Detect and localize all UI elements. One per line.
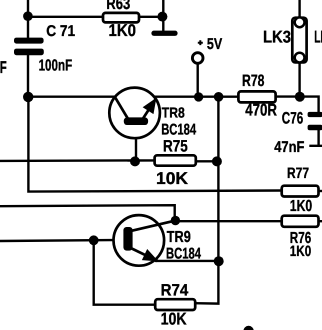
capacitor C71 plates (14, 38, 44, 56)
svg-text:47nF: 47nF (274, 139, 304, 156)
svg-text:5V: 5V (207, 36, 223, 53)
svg-text:C76: C76 (282, 109, 303, 127)
resistor R63 (103, 13, 139, 23)
wire: LK3 top lead from top edge (298, 0, 300, 18)
+5V terminal circle (192, 53, 203, 64)
capacitor C76 plates (308, 112, 322, 130)
wire: vertical from top edge through ground node to ground symbol (162, 0, 164, 31)
svg-text:TR9: TR9 (167, 229, 191, 246)
link LK3 top circle (295, 17, 305, 27)
svg-text:10K: 10K (161, 309, 188, 328)
wire: R75 right to vertical bus node (196, 160, 219, 162)
wire: TR9 emitter to bus node (156, 260, 219, 262)
svg-text:TR8: TR8 (162, 106, 185, 122)
wire: TR9 collector node to R76 (175, 220, 281, 222)
ground symbol (151, 31, 177, 36)
svg-text:470R: 470R (245, 101, 277, 120)
svg-text:LK3: LK3 (263, 27, 291, 46)
wire: horizontal from left edge, corner down to TR9 collector node (0, 205, 175, 220)
wire: vertical below rail node down, corner, horizontal to R77 (28, 97, 281, 192)
wire: +5V terminal lead down to rail (196, 64, 198, 97)
resistor R75 (155, 155, 196, 165)
wire: R63 right to ground node (139, 16, 162, 18)
transistor TR9 body (114, 215, 176, 266)
transistor TR8 body (109, 88, 160, 139)
svg-text:R63: R63 (106, 0, 130, 13)
svg-text:BC184: BC184 (161, 121, 196, 138)
resistor R77 (282, 186, 319, 197)
junction node bus / rail (214, 92, 224, 102)
wire: R77 stub to right edge (318, 190, 322, 192)
svg-text:1K0: 1K0 (290, 198, 312, 215)
wire: collector rail y=96.7 from node to R78 (27, 95, 239, 97)
svg-text:100nF: 100nF (39, 57, 73, 74)
resistor R78 (238, 91, 275, 102)
junction node at C71 top (23, 11, 33, 21)
wire: LK3 bottom lead to rail node (298, 62, 300, 96)
resistor R74 (155, 299, 195, 310)
junction node TR9 base (89, 235, 99, 245)
svg-text:BC184: BC184 (166, 246, 201, 263)
svg-text:LK: LK (314, 28, 322, 47)
svg-text:R77: R77 (287, 165, 309, 182)
svg-text:R74: R74 (161, 281, 189, 299)
wire: C71 bottom lead down to collector-rail node (27, 55, 29, 97)
junction node LK3 / rail (295, 92, 305, 102)
link LK3 bottom circle (295, 53, 305, 63)
svg-text:F: F (0, 58, 7, 77)
wire: TR8 base lead down to node (135, 125, 137, 162)
wire: vertical from top edge through node to C71 top (27, 0, 29, 39)
wire: TR9 base node down, corner, to R74 left (94, 240, 156, 304)
wire: vertical bus from rail node down, corner, to R74 right (195, 97, 218, 304)
junction node TR8 base / R75 (130, 156, 140, 166)
svg-text:1K0: 1K0 (290, 243, 311, 260)
junction node R75 / bus (212, 156, 222, 166)
wire: node to R63 left (28, 16, 104, 18)
wire: C76 bottom lead and stub to right edge (311, 130, 322, 146)
wire: R76 stub to right edge (318, 220, 322, 222)
resistor R76 (282, 216, 319, 227)
junction node at bottom edge (243, 326, 253, 330)
wire: R78 right to LK3 node and corner down to C76 (276, 97, 319, 113)
junction node C71 / rail (23, 92, 33, 102)
+5V plus sign (198, 40, 203, 45)
wire: TR9 base wire from left edge to base bar (0, 240, 124, 241)
svg-text:C 71: C 71 (46, 23, 75, 40)
svg-text:R78: R78 (242, 72, 264, 90)
link LK3 body (292, 18, 306, 63)
svg-text:R75: R75 (163, 138, 188, 156)
junction node at ground (157, 12, 167, 22)
svg-text:1K0: 1K0 (109, 21, 137, 40)
wire: R75 row from left edge to TR8 base node and R75 (0, 159, 155, 162)
junction node TR9 collector (171, 216, 180, 225)
junction node TR9 emitter / bus (214, 256, 224, 266)
svg-text:10K: 10K (156, 169, 189, 188)
junction node +5V / rail (194, 92, 203, 101)
